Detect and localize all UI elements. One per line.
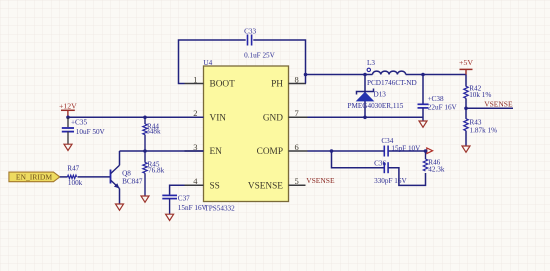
svg-text:76.8k: 76.8k: [148, 166, 165, 174]
svg-text:348k: 348k: [146, 128, 161, 136]
transistor Q8: [111, 165, 143, 188]
svg-text:L3: L3: [367, 59, 375, 67]
capacitor C38: [418, 95, 458, 111]
resistor R42: [464, 84, 492, 99]
svg-text:VSENSE: VSENSE: [484, 99, 513, 108]
wire C38 top lead: [422, 75, 424, 105]
capacitor C36: [374, 159, 407, 185]
diode D13 (schottky): [348, 89, 404, 110]
svg-text:COMP: COMP: [257, 147, 283, 157]
wire D13 branch vertical: [364, 75, 366, 118]
node COMP junction: [330, 149, 334, 153]
resistor R44: [143, 117, 161, 151]
node C38 top junction: [421, 73, 425, 77]
svg-text:1: 1: [193, 74, 197, 84]
wire PH rail to +5V: [306, 74, 373, 76]
svg-text:1.87k 1%: 1.87k 1%: [470, 126, 498, 134]
svg-text:R43: R43: [470, 118, 482, 126]
ground (C37): [166, 214, 174, 220]
svg-text:PH: PH: [271, 80, 283, 90]
wire C36 to R46 bottom: [388, 168, 425, 186]
wire SS to C37: [170, 185, 185, 194]
svg-text:10k 1%: 10k 1%: [469, 91, 491, 99]
wire COMP upper branch through C34: [332, 150, 385, 152]
svg-text:5: 5: [295, 176, 299, 186]
node L3/D13 junction: [363, 73, 367, 77]
svg-text:R47: R47: [67, 164, 79, 172]
resistor R47: [67, 164, 82, 187]
ground (R45): [141, 196, 149, 202]
svg-text:6: 6: [295, 142, 299, 152]
svg-text:VIN: VIN: [210, 114, 227, 124]
svg-text:EN: EN: [210, 147, 223, 157]
svg-text:22uF 16V: 22uF 16V: [428, 103, 458, 111]
wire R42 to junction: [465, 98, 467, 119]
power +5V: [459, 58, 473, 75]
wire port to R47: [60, 176, 68, 178]
svg-text:8: 8: [295, 74, 299, 84]
wire R43 to ground: [465, 131, 467, 146]
svg-text:VSENSE: VSENSE: [248, 182, 283, 192]
node VSENSE junction: [464, 107, 468, 111]
capacitor C34: [381, 137, 421, 156]
node D13 anode / GND wire junction: [363, 116, 367, 120]
svg-text:10uF 50V: 10uF 50V: [76, 128, 106, 136]
wire C37 to ground: [169, 199, 171, 214]
svg-text:BOOT: BOOT: [210, 80, 236, 90]
svg-text:15pF 10V: 15pF 10V: [391, 144, 421, 152]
svg-text:PCD1746CT-ND: PCD1746CT-ND: [367, 79, 417, 87]
capacitor C37: [162, 195, 207, 212]
wire C35 top lead: [67, 117, 69, 127]
pin 2 VIN: [185, 108, 227, 123]
resistor R46: [423, 149, 445, 173]
wire BOOT loop top right: [253, 40, 305, 84]
IC U4 (TPS54332 regulator) body: [203, 59, 288, 212]
pin 6 COMP: [257, 142, 308, 157]
capacitor C33: [244, 28, 276, 60]
svg-text:100k: 100k: [68, 179, 83, 187]
svg-text:15nF 16V: 15nF 16V: [178, 204, 208, 212]
svg-text:BC847: BC847: [122, 178, 143, 186]
wire VSENSE stub: [466, 107, 513, 109]
no-ERC marker: [427, 148, 433, 154]
svg-text:42.3k: 42.3k: [428, 165, 445, 173]
node R44/R45/EN junction: [143, 149, 147, 153]
node +12V junction: [66, 116, 70, 120]
wire Q8 emitter to ground: [119, 189, 121, 204]
svg-text:C33: C33: [244, 28, 256, 36]
ground (C38 / GND net): [419, 121, 427, 127]
node R44 top junction: [143, 116, 147, 120]
power +12V: [59, 101, 77, 117]
wire C38 bottom lead: [422, 108, 424, 121]
wire Q8 collector to EN: [119, 151, 121, 165]
wire COMP to junction: [308, 150, 332, 152]
pin 5 VSENSE: [248, 176, 306, 191]
wire R47 to Q8 base: [78, 176, 111, 178]
wire GND pin7 to C38 ground: [308, 116, 424, 118]
svg-text:TPS54332: TPS54332: [204, 205, 235, 213]
svg-text:+12V: +12V: [59, 101, 77, 110]
pin 4 SS: [185, 176, 220, 191]
svg-text:EN_IRIDM: EN_IRIDM: [16, 173, 53, 182]
svg-text:U4: U4: [203, 59, 212, 67]
node PH junction: [304, 73, 308, 77]
svg-text:SS: SS: [210, 182, 220, 192]
svg-text:+5V: +5V: [459, 58, 473, 67]
resistor R45: [143, 151, 165, 196]
pin 7 GND: [263, 108, 308, 123]
svg-text:+C35: +C35: [71, 119, 87, 127]
svg-text:Q8: Q8: [122, 170, 131, 178]
inductor L3: [367, 59, 417, 87]
svg-text:C36: C36: [374, 159, 386, 167]
pin 1 BOOT: [185, 74, 236, 89]
svg-text:VSENSE: VSENSE: [306, 176, 335, 185]
svg-text:PMEG4030ER,115: PMEG4030ER,115: [348, 102, 404, 110]
wire VIN: [68, 116, 204, 118]
svg-text:0.1uF 25V: 0.1uF 25V: [244, 51, 276, 59]
capacitor C35: [62, 119, 106, 137]
ground (R43): [462, 146, 470, 152]
pin 8 PH: [271, 74, 306, 89]
svg-text:+C38: +C38: [428, 95, 444, 103]
svg-text:C37: C37: [178, 195, 190, 203]
port EN_IRIDM: [9, 172, 60, 182]
wire +5V corner down to R42: [465, 75, 467, 87]
wire COMP lower branch: [332, 151, 385, 168]
ground (Q8): [116, 204, 124, 210]
svg-text:330pF 16V: 330pF 16V: [374, 177, 407, 185]
svg-text:7: 7: [295, 108, 299, 118]
wire BOOT loop left/top: [179, 40, 246, 84]
svg-text:D13: D13: [374, 91, 387, 99]
wire EN: [120, 150, 204, 152]
svg-text:GND: GND: [263, 114, 283, 124]
pin 3 EN: [185, 142, 223, 157]
ground (C35): [64, 144, 72, 150]
wire C35 bottom lead: [67, 132, 69, 144]
resistor R43: [464, 118, 497, 134]
